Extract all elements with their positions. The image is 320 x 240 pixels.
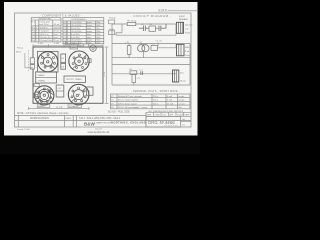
svg-text:.05 mf 350v: .05 mf 350v (71, 25, 81, 27)
valve data table text (111, 95, 186, 109)
switch label box (84, 44, 89, 47)
resistor R5 (151, 44, 176, 51)
company logo B&W (84, 122, 95, 127)
svg-text:3,300 1 w: 3,300 1 w (39, 34, 49, 36)
resistor R1 (127, 21, 137, 26)
svg-text:350v: 350v (96, 31, 100, 33)
svg-text:15.7/8": 15.7/8" (56, 107, 63, 109)
svg-text:screen: screen (179, 102, 186, 105)
mains rectifier stack (173, 70, 188, 83)
svg-text:NOTE :- 18 S.W.G. Aluminium: NOTE :- 18 S.W.G. Aluminium chassis - (t… (17, 112, 69, 115)
wire mid rail (112, 73, 176, 75)
svg-text:Traced 7-1-46: Traced 7-1-46 (17, 129, 30, 131)
svg-text:.05 mf: .05 mf (53, 24, 59, 26)
resistor R4 (125, 42, 131, 58)
condenser block right of V4 (86, 87, 93, 95)
resistors table grid (31, 18, 61, 42)
svg-text:MAINS: MAINS (38, 74, 45, 77)
svg-text:elect: elect (87, 27, 92, 30)
title block outline (15, 112, 192, 127)
svg-text:6J5 G. triode amplifier: 6J5 G. triode amplifier (118, 99, 139, 102)
chassis outline (33, 47, 103, 103)
svg-text:1/2 meg 1/4w: 1/2 meg 1/4w (39, 40, 52, 42)
valve V1 (38, 51, 58, 72)
svg-text:elect: elect (87, 33, 92, 36)
drawn reference row (79, 117, 121, 120)
svg-text:250 v.: 250 v. (153, 103, 159, 105)
svg-text:Speech: Speech (185, 24, 193, 26)
smoothing choke between bottom valves (56, 85, 64, 97)
svg-text:(L.HAMPTON RD): (L.HAMPTON RD) (94, 121, 111, 124)
valve V4 (68, 84, 89, 105)
svg-text:Gd.: Gd. (179, 107, 183, 109)
svg-text:DATE: DATE (66, 117, 72, 120)
svg-text:Mains: Mains (180, 81, 187, 83)
dimensions note (149, 110, 184, 113)
svg-text:25 mf: 25 mf (53, 40, 59, 42)
svg-text:Mains: Mains (16, 51, 21, 53)
svg-text:Speaker: Speaker (179, 18, 188, 21)
wire left drop (111, 24, 113, 85)
svg-text:TRANS.: TRANS. (38, 79, 46, 82)
svg-text:OUTPUT TRANS.: OUTPUT TRANS. (66, 78, 82, 81)
wire bottom rail (112, 84, 190, 86)
svg-text:elect: elect (87, 36, 92, 39)
revision cells right of drawing number (181, 119, 192, 126)
svg-text:- CONDENSERS -: - CONDENSERS - (70, 19, 87, 21)
mains dropper box on top edge (70, 45, 78, 49)
svg-text:Tone: Tone (185, 55, 191, 57)
svg-text:WORTHING, ENGLAND: WORTHING, ENGLAND (111, 120, 146, 124)
condensers table text (63, 19, 100, 44)
electrolytic can C10 (33, 92, 40, 99)
fuse holder circle (90, 45, 96, 51)
resistors table text (32, 19, 61, 43)
svg-text:6V6 G. beam output: 6V6 G. beam output (118, 102, 137, 105)
company address (94, 120, 146, 124)
transformer tag strip (34, 84, 39, 87)
electrolytic C6 between top valves (61, 63, 66, 69)
input socket SK2 (30, 65, 34, 69)
wire rail 5 (112, 64, 190, 66)
speaker label box below chassis (68, 104, 81, 108)
electrolytic C5 between top valves (61, 54, 66, 63)
svg-text:Pickup: Pickup (17, 48, 24, 50)
svg-text:350v: 350v (96, 42, 100, 44)
chassis caption note (17, 112, 69, 115)
svg-text:coil: coil (185, 28, 189, 30)
loudspeaker label (179, 15, 188, 21)
output transformer T2 (177, 44, 191, 57)
svg-text:8 mf 450v: 8 mf 450v (71, 34, 80, 36)
svg-text:- CIRCUIT DIAGRAM -: - CIRCUIT DIAGRAM - (131, 14, 172, 18)
volume control VR1 (149, 24, 159, 31)
resistor R7 (130, 69, 137, 74)
svg-text:A.C.: A.C. (180, 72, 185, 75)
svg-text:2 meg. grid: 2 meg. grid (39, 21, 50, 24)
svg-text:www.audiotube.dk: www.audiotube.dk (88, 130, 110, 134)
svg-text:R1 2meg: R1 2meg (127, 21, 137, 23)
svg-text:- RESISTORS -: - RESISTORS - (38, 19, 53, 21)
loudspeaker LS (185, 24, 193, 34)
capacitor C2 (159, 24, 166, 31)
svg-text:250 v.: 250 v. (153, 100, 159, 102)
svg-text:SCALE :- FULL SIZE: SCALE :- FULL SIZE (108, 111, 130, 114)
components table heading (40, 14, 82, 18)
svg-text:25v: 25v (96, 28, 99, 30)
svg-text:anode: anode (179, 96, 186, 98)
svg-text:350v: 350v (96, 25, 100, 27)
svg-text:Pickup: Pickup (109, 18, 116, 20)
svg-text:paper: paper (87, 22, 92, 24)
svg-text:4466: 4466 (165, 120, 176, 125)
watermark (88, 130, 110, 134)
svg-text:anode: anode (179, 100, 186, 102)
wire rail 2 (116, 33, 176, 35)
mains input label box below chassis (37, 104, 50, 108)
svg-text:Issue B: Issue B (95, 128, 102, 130)
svg-text:C7 .05: C7 .05 (156, 41, 163, 43)
svg-text:2.3/4": 2.3/4" (38, 43, 44, 45)
wire rail 4 (112, 57, 190, 59)
svg-text:450v: 450v (96, 34, 100, 36)
output transformer box (64, 76, 86, 83)
socket leader labels (16, 48, 33, 68)
svg-text:VOL.CONT.: VOL.CONT. (66, 43, 77, 45)
svg-text:.002 mf: .002 mf (53, 27, 60, 29)
svg-text:SPEAKER: SPEAKER (69, 105, 79, 108)
approvals header table (146, 112, 191, 116)
capacitor C1 (139, 24, 149, 31)
svg-text:1 meg pot: 1 meg pot (39, 30, 49, 33)
svg-text:MAINS: MAINS (38, 105, 45, 108)
circuit diagram heading (131, 14, 172, 18)
wire rail 3 (112, 43, 190, 45)
svg-text:450v: 450v (96, 37, 100, 39)
svg-text:paper: paper (87, 25, 92, 27)
condensers table grid (63, 18, 104, 44)
dropper label box (65, 41, 78, 45)
svg-text:Gd.: Gd. (182, 119, 186, 121)
svg-text:45 mA: 45 mA (167, 102, 174, 105)
svg-text:.01 mf 350v: .01 mf 350v (71, 22, 81, 24)
svg-text:9 mA: 9 mA (167, 99, 172, 102)
svg-text:leak 1/4 w: leak 1/4 w (39, 24, 49, 26)
svg-text:25 mf: 25 mf (53, 31, 59, 33)
svg-text:Mullard 6K7 met. pentode: Mullard 6K7 met. pentode (118, 95, 143, 98)
svg-text:8 mf: 8 mf (185, 51, 190, 53)
note E.M.6 (159, 9, 198, 13)
input terminal J1 (109, 18, 117, 24)
svg-text:DRG. Nº: DRG. Nº (148, 120, 164, 125)
svg-text:8 mf 450v: 8 mf 450v (71, 37, 80, 39)
svg-text:7.1/2": 7.1/2" (103, 71, 106, 77)
pickup terminal J2 (109, 29, 116, 35)
valve data table grid (111, 94, 191, 109)
wire right drop (189, 44, 191, 85)
svg-text:3.3/8": 3.3/8" (54, 43, 60, 45)
note below frame left (17, 129, 30, 131)
svg-text:SCALE: SCALE (177, 113, 184, 116)
svg-text:MODIFICATIONS: MODIFICATIONS (30, 117, 49, 120)
output transformer T1 (176, 22, 184, 35)
special notes heading (131, 90, 180, 93)
wire top rail (112, 23, 176, 25)
svg-text:350v: 350v (96, 22, 100, 24)
svg-text:8 mf: 8 mf (53, 34, 57, 36)
svg-text:8 mf: 8 mf (53, 37, 57, 39)
resistor R8 (139, 69, 143, 75)
vertical dimension line right of chassis (103, 47, 108, 103)
svg-text:MFD: MFD (185, 47, 190, 49)
mains transformer box (36, 72, 57, 83)
input socket SK1 (30, 58, 34, 64)
svg-text:8 mA: 8 mA (167, 95, 172, 98)
svg-text:E.M.6: E.M.6 (159, 9, 168, 13)
scale note (108, 111, 130, 114)
smoothing choke L1 (132, 74, 141, 85)
svg-text:Field: Field (185, 32, 191, 34)
svg-text:- TERMINAL VOLTS - SHORT WA: - TERMINAL VOLTS - SHORT WAVE - (131, 90, 180, 93)
dimension line above chassis (33, 43, 103, 47)
approvals header text (147, 113, 190, 116)
svg-text:S.R.J - B.M.4 (350) DRG 4466 -: S.R.J - B.M.4 (350) DRG 4466 - Mod.4 (79, 117, 121, 120)
coupling cap C7 label (156, 41, 163, 46)
svg-text:250 v.: 250 v. (153, 96, 159, 98)
modifications cell (30, 117, 72, 120)
svg-text:50,000 w: 50,000 w (39, 27, 48, 29)
valve V2 (69, 51, 89, 71)
svg-text:.05 mf 350v: .05 mf 350v (71, 31, 81, 33)
valve V2 anode circle (138, 42, 149, 58)
svg-text:25 mf 25v: 25 mf 25v (71, 28, 80, 30)
svg-text:paper: paper (87, 31, 92, 33)
note below frame centre (95, 128, 102, 130)
svg-text:150 ohm 2w: 150 ohm 2w (39, 37, 51, 39)
svg-text:- COMPONENTS & VALUES -: - COMPONENTS & VALUES - (40, 14, 82, 18)
resistor board right of V2 (88, 59, 92, 63)
svg-text:DATE: DATE (185, 113, 191, 116)
wire second rail (116, 24, 122, 33)
dashed datum line (28, 50, 30, 72)
drawing number box (146, 116, 181, 127)
bottom dimension line (29, 107, 90, 110)
svg-text:to suit - `mains`: to suit - `mains` (134, 106, 149, 109)
valve V3 (35, 86, 54, 105)
